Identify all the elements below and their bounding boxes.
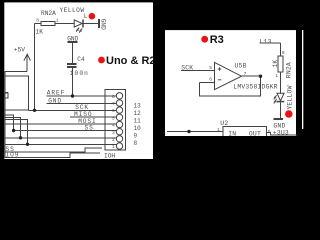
svg-text:10: 10 [134,125,142,132]
wire vertical resistor down to SCK [34,24,36,111]
svg-text:100n: 100n [70,70,89,77]
svg-text:2: 2 [112,137,115,143]
svg-text:5: 5 [209,65,212,71]
svg-text:1: 1 [275,73,278,79]
svg-text:1: 1 [217,127,220,133]
svg-text:6: 6 [112,108,115,114]
right edge sliver [302,30,303,129]
op-amp + symbol [218,67,221,70]
U2 box [223,127,267,136]
wire row7 [4,137,116,139]
junction dot staircase c [26,143,29,146]
svg-text:8: 8 [112,94,115,100]
header box IOH [105,90,126,150]
svg-text:C4: C4 [77,56,85,63]
svg-text:11: 11 [134,118,142,125]
svg-text:GND: GND [48,97,62,104]
LED arrows [274,95,277,99]
wire +5V corner to left edge [4,71,27,73]
svg-text:12: 12 [134,110,142,117]
svg-text:1K: 1K [272,60,279,68]
svg-text:3: 3 [112,130,115,136]
staircase wire a [4,115,13,130]
svg-text:5: 5 [112,115,115,121]
big box (cut component) [4,76,28,110]
+5V arrowhead [24,54,31,61]
wire GND to C4 [72,42,74,63]
resistor RN2A body [41,22,55,26]
junction dot staircase a [12,129,15,132]
output wire [242,75,261,77]
svg-text:AREF: AREF [47,89,65,96]
svg-text:7: 7 [244,71,247,77]
ground bar above C4 [67,41,77,43]
wire MOSI to header row5 [4,123,116,125]
svg-text:8: 8 [282,50,285,56]
svg-text:4: 4 [112,123,115,129]
wire U2 pin1 [167,131,223,133]
staircase wire c [4,120,27,145]
+5V arrow stem [26,55,28,72]
wire resistor to LED [55,23,74,25]
LED L (left panel) [74,20,83,33]
svg-text:5: 5 [268,129,271,135]
svg-text:IO9: IO9 [6,152,20,159]
wire IO9 bottom [4,153,100,158]
resistor RN2A body (right) [278,56,283,72]
wire SS trunk to header row6 [14,130,117,132]
pin stub in box [4,92,8,94]
svg-text:GND: GND [67,36,78,43]
LED arrows [77,28,80,32]
wire resistor left [35,23,42,25]
wire SCK to op-amp [181,70,215,72]
svg-text:9: 9 [134,133,138,140]
ground bar rotated at LED [98,19,100,28]
svg-text:IOH: IOH [104,153,115,160]
svg-text:8: 8 [134,140,138,147]
svg-text:8: 8 [36,18,39,24]
svg-text:GND: GND [100,19,107,30]
wire AREF to header row1 [46,95,116,97]
LED (right panel, pointing down) [274,93,284,103]
svg-text:+5V: +5V [14,47,25,54]
svg-text:SCK: SCK [181,65,193,72]
svg-text:LMV358IDGKR: LMV358IDGKR [233,83,277,90]
red dot yellow led [285,110,293,118]
svg-text:RN2A: RN2A [285,62,292,78]
wire U2 pin5 to +3V3 [267,133,298,135]
svg-text:Uno & R2: Uno & R2 [106,55,156,67]
svg-text:6: 6 [209,77,212,83]
wire SCK box pin to header row3 [29,109,117,111]
op-amp U5B triangle [215,62,242,89]
svg-text:R3: R3 [210,34,224,46]
wire L13 down to resistor [280,43,282,56]
junction dot U2 pin1 wire [187,130,190,133]
wire SS bottom [4,148,102,152]
left panel background [4,2,153,159]
junction dot staircase b [19,136,22,139]
header pin numbers [112,94,115,150]
wire LED to GND [84,23,99,25]
net labels 13..8 right of header [134,103,142,148]
junction dot resistor/SCK [33,109,36,112]
svg-text:1: 1 [112,144,115,150]
wire GND to header row2 [46,102,116,104]
op-amp - symbol [218,79,221,81]
junction dot op-amp output [259,75,262,78]
cut wire bus along left edge [4,72,6,158]
wire row8 [4,143,116,145]
wire inverting input [200,82,215,84]
red dot Uno & R2 [98,57,105,64]
right panel background [165,30,296,136]
capacitor C4 plates [67,63,77,65]
staircase wire b [4,117,20,138]
ground bar (right) [274,118,284,120]
svg-text:+3U3: +3U3 [273,130,289,137]
svg-text:U2: U2 [220,120,228,127]
svg-text:SS: SS [85,125,94,132]
wire resistor to LED [280,72,282,93]
svg-text:OUT: OUT [249,131,261,138]
svg-text:13: 13 [134,103,142,110]
svg-text:YELLOW: YELLOW [60,7,85,14]
red dot L [89,13,96,20]
svg-text:GND: GND [273,122,285,129]
wire C4 down to AREF [72,68,74,96]
svg-text:L13: L13 [260,38,272,45]
svg-text:L: L [84,13,88,20]
svg-text:7: 7 [112,101,115,107]
junction dot AREF/C4 [71,94,74,97]
red dot R3 [201,36,208,43]
svg-text:U5B: U5B [235,62,247,69]
pin pad inside box [5,93,8,98]
svg-text:1K: 1K [36,28,44,35]
wire L13 label [260,42,281,44]
wire MISO to header row4 [70,116,117,118]
wire LED to GND [280,103,282,119]
header pin circles [116,93,122,150]
svg-text:1: 1 [56,18,59,24]
svg-text:YELLOW: YELLOW [287,85,294,109]
svg-text:RN2A: RN2A [41,10,56,17]
svg-text:IN: IN [228,131,236,138]
feedback wire [200,76,261,96]
